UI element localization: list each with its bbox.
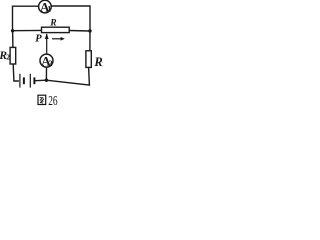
slider direction arrow <box>52 38 63 40</box>
svg-text:1: 1 <box>102 60 103 69</box>
resistor R2 body <box>10 47 16 64</box>
svg-text:26: 26 <box>48 92 57 108</box>
node: left junction <box>11 29 14 32</box>
node: right junction <box>88 29 91 32</box>
battery cell 2 long plate <box>29 74 31 88</box>
battery cell 1 short plate <box>23 77 25 84</box>
wire left vertical to R2 <box>12 31 14 48</box>
svg-text:R: R <box>49 18 56 28</box>
caption: 图 glyph (hand-drawn) <box>38 95 46 104</box>
rheostat R body <box>42 27 70 32</box>
resistor R1 body <box>86 51 91 68</box>
wire A2 to bottom <box>45 67 47 80</box>
node: bottom junction <box>45 79 48 82</box>
wire middle-right <box>69 30 90 33</box>
ammeter A2 <box>40 54 53 67</box>
battery cell 1 long plate <box>19 74 21 88</box>
wire top-right segment <box>51 6 90 31</box>
wire top-left segment <box>13 6 39 31</box>
svg-text:2: 2 <box>6 53 10 62</box>
wire right vertical to R1 <box>89 31 91 51</box>
wire middle-left <box>13 29 42 31</box>
slider P arrow <box>46 34 48 54</box>
svg-text:P: P <box>35 34 42 45</box>
svg-text:2: 2 <box>49 59 53 68</box>
wire R2 to battery corner <box>13 64 19 81</box>
wire bottom-right sloped <box>46 67 89 85</box>
wire battery to bottom junction <box>35 79 46 82</box>
svg-text:1: 1 <box>47 5 51 14</box>
ammeter A1 <box>39 0 52 13</box>
battery cell 2 short plate <box>33 77 35 84</box>
